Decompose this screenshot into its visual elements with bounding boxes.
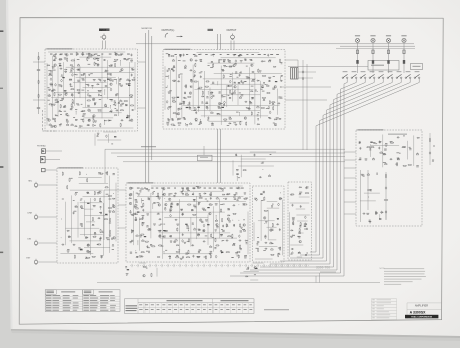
ext jack J6 xyxy=(34,260,38,264)
value label xyxy=(172,118,174,121)
ref label xyxy=(385,145,387,148)
ref label xyxy=(280,97,282,100)
value label xyxy=(192,193,194,196)
ref label xyxy=(292,219,294,222)
resistor R12 xyxy=(94,63,95,66)
wire xyxy=(194,89,253,91)
value label xyxy=(176,254,178,257)
ref label xyxy=(211,124,214,127)
value label xyxy=(53,103,56,106)
wire xyxy=(360,170,362,222)
trimmer VR30 xyxy=(238,188,240,189)
ref label xyxy=(111,238,113,241)
wire xyxy=(135,211,225,213)
value label xyxy=(177,108,180,111)
value label xyxy=(262,161,264,164)
value label xyxy=(370,188,372,191)
wire bundle line 9 xyxy=(343,84,345,276)
resistor R61 xyxy=(206,86,209,87)
capacitor C134 xyxy=(291,248,293,250)
ref label xyxy=(138,194,140,197)
ref label xyxy=(149,228,151,231)
wire xyxy=(297,60,299,68)
ref label xyxy=(225,198,227,201)
ref label xyxy=(173,66,175,69)
ref label xyxy=(206,220,208,223)
resistor R11 xyxy=(115,59,118,60)
wire bundle turn xyxy=(270,263,330,265)
parts list table xyxy=(45,290,120,312)
value label xyxy=(235,71,237,74)
node junction xyxy=(216,80,219,83)
value label xyxy=(236,154,238,157)
ref label xyxy=(206,106,209,109)
diode D15 xyxy=(252,71,254,72)
value label xyxy=(403,135,405,138)
resistor R101 xyxy=(74,255,75,258)
connector pin tick xyxy=(269,264,271,267)
table column line xyxy=(183,303,185,314)
wire xyxy=(298,71,316,73)
wire xyxy=(183,104,280,106)
table column line xyxy=(236,303,238,314)
value label xyxy=(233,53,236,56)
value label xyxy=(198,123,200,126)
resistor R43 xyxy=(38,81,39,84)
ref label xyxy=(250,102,253,105)
switch S7 label xyxy=(397,71,402,72)
node junction xyxy=(367,196,370,199)
ref label xyxy=(269,80,271,83)
input jack J1 xyxy=(102,35,106,39)
value label xyxy=(249,58,251,61)
value label xyxy=(119,79,121,82)
value label xyxy=(185,97,187,100)
component label row xyxy=(76,53,79,56)
wire xyxy=(260,81,262,118)
wire stub xyxy=(168,76,170,79)
wire xyxy=(108,134,110,143)
ref label xyxy=(215,204,217,207)
connector pin tick xyxy=(209,264,211,267)
resistor R117 xyxy=(244,204,247,205)
wire xyxy=(104,149,106,183)
value label xyxy=(219,91,221,94)
resistor R68 xyxy=(263,97,266,98)
capacitor C95 xyxy=(142,209,144,211)
wire xyxy=(104,189,126,191)
ref label xyxy=(167,70,169,73)
wire stub xyxy=(152,204,154,209)
component label row xyxy=(127,53,130,56)
value label xyxy=(181,190,183,193)
value label xyxy=(263,81,265,84)
resistor R142 xyxy=(141,252,144,253)
resistor R134 xyxy=(232,235,233,238)
value label xyxy=(222,229,225,232)
value label xyxy=(131,239,133,242)
component label row xyxy=(64,53,67,56)
ref label xyxy=(129,80,131,83)
capacitor C10 xyxy=(99,79,101,81)
resistor R127 xyxy=(131,230,132,233)
board title xyxy=(128,182,154,183)
ref label xyxy=(104,80,106,83)
value label xyxy=(97,54,100,57)
value label xyxy=(251,85,254,88)
transistor Q38 xyxy=(186,188,189,191)
value label xyxy=(292,222,294,225)
ref label xyxy=(192,223,194,226)
value label xyxy=(298,235,301,238)
value label xyxy=(87,89,89,92)
resistor R149 xyxy=(187,257,190,258)
value label xyxy=(244,192,246,195)
value label xyxy=(200,194,202,197)
value label xyxy=(174,79,176,82)
capacitor C138 xyxy=(259,176,261,178)
board outline (dashed) xyxy=(288,182,312,260)
node junction xyxy=(199,118,202,121)
value label xyxy=(87,56,89,59)
component label row xyxy=(174,187,176,190)
wire xyxy=(197,52,260,54)
ref label xyxy=(112,80,114,83)
value label xyxy=(223,58,226,61)
value label xyxy=(78,91,80,94)
transistor Q28 xyxy=(244,117,247,120)
value label xyxy=(167,69,169,72)
ref label xyxy=(223,104,225,107)
wire xyxy=(103,131,116,133)
wire xyxy=(296,214,309,216)
ref label xyxy=(281,75,283,78)
ref label xyxy=(64,58,66,61)
ref label xyxy=(198,229,200,232)
trimmer VR3 xyxy=(127,80,129,81)
value label xyxy=(55,101,58,104)
wire xyxy=(407,141,409,160)
ref label xyxy=(179,118,181,121)
ref label xyxy=(298,237,300,240)
ref label xyxy=(182,213,184,216)
stub row text xyxy=(126,307,138,310)
table row text xyxy=(46,306,52,309)
ref designator label xyxy=(375,212,377,213)
ref label xyxy=(53,118,55,121)
value label xyxy=(75,191,78,194)
value label xyxy=(240,226,242,229)
paper left edge shade xyxy=(6,0,13,329)
capacitor C20 xyxy=(115,94,117,96)
wire vertical pair center xyxy=(217,34,219,50)
ref label xyxy=(198,251,200,254)
value label xyxy=(109,98,112,101)
value label xyxy=(94,232,96,235)
transistor Q43 xyxy=(158,204,161,207)
value label xyxy=(112,203,114,206)
value label xyxy=(71,93,73,96)
capacitor C117 xyxy=(221,251,223,253)
capacitor C131 xyxy=(292,204,294,206)
value label xyxy=(170,192,173,195)
scan mark xyxy=(0,252,3,254)
table cell value xyxy=(180,303,183,306)
wire mid bus xyxy=(117,156,345,158)
resistor R20 xyxy=(71,89,74,90)
switch S1 label xyxy=(343,71,348,72)
ref label xyxy=(80,224,82,227)
transistor Q50 xyxy=(243,224,246,227)
wire bundle turn xyxy=(240,272,341,274)
value label xyxy=(88,243,90,246)
component label row xyxy=(186,187,189,190)
value label xyxy=(170,240,172,243)
ref label xyxy=(163,236,165,239)
resistor R158 xyxy=(258,249,259,252)
value label xyxy=(198,87,200,90)
value label xyxy=(161,245,164,248)
transistor Q42 xyxy=(129,202,132,205)
switch S5 xyxy=(378,77,380,79)
connector pin tick xyxy=(167,264,169,267)
trimmer VR2 xyxy=(71,69,73,70)
value label xyxy=(72,102,74,105)
value label xyxy=(49,95,51,98)
wire xyxy=(118,227,126,229)
wire xyxy=(51,97,132,99)
lamp PL1 xyxy=(355,38,359,42)
value label xyxy=(228,94,230,97)
wire xyxy=(385,210,387,219)
value label xyxy=(383,152,386,155)
wire xyxy=(240,155,242,178)
ref label xyxy=(153,202,155,205)
resistor R4 xyxy=(92,54,95,55)
ref label xyxy=(233,54,235,57)
resistor R171 xyxy=(243,170,246,171)
trimmer VR22 xyxy=(257,107,259,108)
value label xyxy=(214,246,216,249)
board outline (dashed) xyxy=(126,183,250,262)
capacitor C9 (electrolytic) xyxy=(61,80,63,82)
ref label xyxy=(171,119,173,122)
value label xyxy=(181,209,183,212)
ref label xyxy=(97,135,99,138)
resistor R47 xyxy=(219,60,220,63)
wire bundle to power supply xyxy=(344,177,356,179)
value label xyxy=(244,58,246,61)
capacitor C93 xyxy=(198,203,200,205)
wire xyxy=(134,62,136,110)
table cell value xyxy=(220,303,223,306)
capacitor C78 xyxy=(98,217,100,219)
value label xyxy=(409,146,411,149)
node junction xyxy=(103,89,106,92)
resistor R27 xyxy=(88,100,91,101)
ref label xyxy=(126,274,128,277)
ref label xyxy=(299,193,301,196)
capacitor C135 (electrolytic) xyxy=(291,252,293,254)
resistor R97 xyxy=(81,224,82,227)
resistor R156 xyxy=(272,224,273,227)
transistor Q59 xyxy=(254,266,257,269)
capacitor C19 xyxy=(98,93,100,95)
ref label xyxy=(168,69,170,72)
capacitor C3 xyxy=(58,63,60,65)
table cell value xyxy=(157,303,160,306)
resistor R49 xyxy=(195,64,196,67)
component label row xyxy=(246,53,248,56)
value label xyxy=(277,217,279,220)
value label xyxy=(395,163,398,166)
svg-text:AMPLIFIER: AMPLIFIER xyxy=(415,305,428,308)
value label xyxy=(263,249,266,252)
ref label xyxy=(383,153,385,156)
ref label xyxy=(241,227,242,230)
component label row xyxy=(81,53,83,56)
resistor R111 xyxy=(199,197,202,198)
ref label xyxy=(98,173,100,176)
wire xyxy=(133,191,135,245)
resistor R132 xyxy=(211,234,212,237)
ref label xyxy=(77,80,79,83)
value label xyxy=(178,117,181,120)
value label xyxy=(60,110,62,113)
connector pin tick xyxy=(275,264,277,267)
ref label xyxy=(242,83,244,86)
value label xyxy=(81,103,83,106)
capacitor C51 xyxy=(184,91,186,93)
ref label xyxy=(64,106,66,109)
component label row xyxy=(60,53,63,56)
value label xyxy=(51,89,53,92)
revision table xyxy=(372,298,397,300)
trimmer VR50 xyxy=(416,154,418,155)
node junction xyxy=(221,240,224,243)
resistor R183 xyxy=(143,266,146,267)
wire xyxy=(190,217,192,246)
value label xyxy=(199,192,201,195)
table row text xyxy=(46,302,52,305)
wire stub xyxy=(207,92,209,95)
value label xyxy=(178,249,180,252)
ref label xyxy=(174,195,176,198)
component label row xyxy=(95,53,98,56)
resistor R104 xyxy=(429,139,430,142)
wire switch drop xyxy=(355,79,357,83)
ref label xyxy=(87,244,89,247)
transistor Q19 xyxy=(251,64,254,67)
wire xyxy=(84,246,110,248)
wire xyxy=(102,203,104,256)
value label xyxy=(397,157,400,160)
transistor Q2 xyxy=(66,54,69,57)
wire xyxy=(84,117,114,119)
wire xyxy=(66,66,134,68)
capacitor C118 xyxy=(141,256,143,258)
ref designator label xyxy=(207,224,209,225)
resistor R58 xyxy=(206,81,209,82)
wire stub xyxy=(99,206,101,210)
value label xyxy=(78,246,80,249)
resistor R118 xyxy=(221,209,222,212)
value label xyxy=(99,98,102,101)
ref designator label xyxy=(177,97,179,98)
component label row xyxy=(120,53,123,56)
resistor R91 xyxy=(67,186,68,189)
ref label xyxy=(200,196,202,199)
ref label xyxy=(220,235,222,238)
component label row xyxy=(220,53,222,56)
value label xyxy=(183,116,185,119)
ref label xyxy=(49,73,51,76)
capacitor C109 (electrolytic) xyxy=(182,240,184,242)
capacitor C111 xyxy=(226,240,228,242)
connector pin xyxy=(403,60,405,64)
ref label xyxy=(183,117,185,120)
value label xyxy=(302,77,304,80)
component label row xyxy=(213,187,216,190)
ref label xyxy=(361,174,363,177)
ref label xyxy=(49,89,51,92)
table cell value xyxy=(203,303,206,306)
resistor R112 xyxy=(244,198,247,199)
trimmer VR45 xyxy=(271,249,273,250)
capacitor C21 xyxy=(94,103,96,105)
capacitor C101 xyxy=(175,219,177,221)
value label xyxy=(212,236,214,239)
wire xyxy=(97,139,121,141)
table column line xyxy=(230,303,232,314)
value label xyxy=(186,123,188,126)
resistor R161 xyxy=(278,254,279,257)
resistor R14 xyxy=(115,64,116,67)
value label xyxy=(305,253,307,256)
value label xyxy=(237,76,239,79)
table left stub block xyxy=(137,299,139,314)
trimmer VR47 xyxy=(298,253,300,254)
resistor R166 xyxy=(299,229,300,232)
value label xyxy=(100,109,102,112)
board title xyxy=(59,167,83,168)
wire lamp down xyxy=(357,43,359,60)
wire xyxy=(210,83,263,85)
table row text xyxy=(46,309,52,312)
ref label xyxy=(97,193,99,196)
resistor R26 xyxy=(72,100,73,103)
capacitor C2 xyxy=(103,59,105,61)
component label row xyxy=(198,53,200,56)
value label xyxy=(67,114,70,117)
wire long bottom xyxy=(97,282,380,284)
resistor R51 xyxy=(229,66,232,67)
node junction xyxy=(112,192,115,195)
ref label xyxy=(189,108,192,111)
wire xyxy=(254,73,256,124)
node junction xyxy=(163,250,166,253)
wire stub xyxy=(103,120,105,125)
value label xyxy=(81,110,84,113)
capacitor C11 xyxy=(119,78,121,80)
capacitor C42 (electrolytic) xyxy=(194,71,196,73)
value label xyxy=(105,105,108,108)
value label xyxy=(88,124,90,127)
value label xyxy=(248,76,250,79)
value label xyxy=(290,253,292,256)
resistor R38 xyxy=(93,120,94,123)
ref label xyxy=(199,202,201,205)
